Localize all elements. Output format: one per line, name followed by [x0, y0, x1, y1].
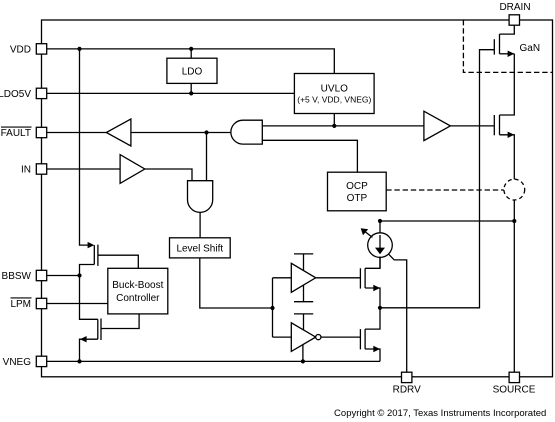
- svg-text:VNEG: VNEG: [3, 357, 32, 368]
- svg-text:Level Shift: Level Shift: [176, 244, 223, 255]
- svg-text:(+5 V, VDD, VNEG): (+5 V, VDD, VNEG): [297, 94, 371, 104]
- svg-text:BBSW: BBSW: [2, 271, 32, 282]
- svg-text:LDO5V: LDO5V: [0, 89, 31, 100]
- svg-text:VDD: VDD: [10, 45, 31, 56]
- svg-text:LPM: LPM: [10, 299, 31, 310]
- svg-text:OCP: OCP: [346, 181, 368, 192]
- svg-text:FAULT: FAULT: [1, 128, 31, 139]
- svg-text:UVLO: UVLO: [321, 84, 348, 95]
- svg-text:IN: IN: [21, 165, 31, 176]
- svg-text:Controller: Controller: [116, 293, 160, 304]
- svg-text:Buck-Boost: Buck-Boost: [112, 280, 163, 291]
- svg-text:SOURCE: SOURCE: [493, 384, 536, 395]
- svg-text:OTP: OTP: [347, 193, 368, 204]
- svg-text:DRAIN: DRAIN: [499, 2, 530, 13]
- svg-text:LDO: LDO: [182, 66, 203, 77]
- svg-text:RDRV: RDRV: [393, 384, 421, 395]
- svg-text:GaN: GaN: [520, 43, 541, 54]
- svg-text:Copyright © 2017, Texas Instru: Copyright © 2017, Texas Instruments Inco…: [334, 408, 546, 419]
